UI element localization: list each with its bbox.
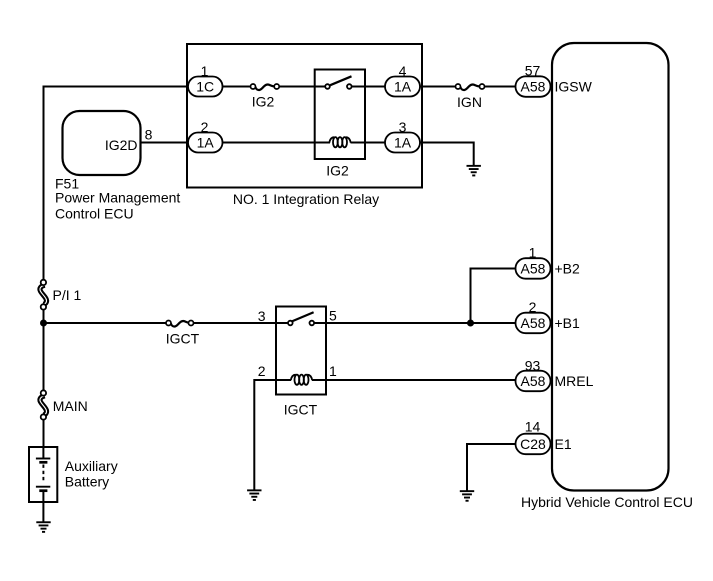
svg-text:Control ECU: Control ECU bbox=[55, 205, 134, 221]
wire: vertical from P/I 1 to MAIN bbox=[43, 310, 45, 391]
svg-text:2: 2 bbox=[529, 299, 537, 315]
svg-text:A58: A58 bbox=[521, 79, 546, 95]
connector pin 1A (pin 4) bbox=[385, 77, 420, 97]
fuse IG2 bbox=[251, 84, 280, 90]
svg-text:IG2D: IG2D bbox=[105, 137, 138, 153]
wire: fuse IG2 to relay contact bbox=[279, 86, 325, 88]
wire: 1C to fuse IG2 bbox=[223, 86, 251, 88]
svg-text:E1: E1 bbox=[555, 436, 572, 452]
wire: row2 from 1A (2) to coil bbox=[223, 142, 331, 144]
relay IGCT coil bbox=[291, 375, 312, 385]
svg-text:P/I 1: P/I 1 bbox=[53, 287, 82, 303]
svg-text:IG2: IG2 bbox=[326, 163, 349, 179]
svg-text:IGCT: IGCT bbox=[166, 330, 200, 346]
svg-text:Power Management: Power Management bbox=[55, 190, 180, 206]
svg-text:A58: A58 bbox=[521, 315, 546, 331]
connector pin 1C (pin 1) bbox=[188, 77, 223, 97]
wire: pin 1A (3) to ground bbox=[420, 143, 474, 167]
wire: +B2 branch up and right bbox=[471, 269, 517, 324]
wire: E1 to ground bbox=[467, 444, 516, 491]
connector pin 1A (pin 3) bbox=[385, 133, 420, 153]
ground: IGCT relay ground bbox=[247, 489, 261, 501]
svg-text:+B2: +B2 bbox=[555, 261, 581, 277]
relay IG2 coil bbox=[329, 137, 350, 147]
svg-text:IG2: IG2 bbox=[252, 94, 275, 110]
wire: pin 2 to coil bbox=[254, 379, 291, 381]
ground: E1 ground bbox=[460, 490, 474, 501]
connector pin A58 (1) +B2 bbox=[516, 258, 551, 279]
svg-text:93: 93 bbox=[525, 357, 541, 373]
svg-text:57: 57 bbox=[525, 63, 541, 79]
svg-text:1: 1 bbox=[329, 363, 337, 379]
box: Hybrid Vehicle Control ECU bbox=[552, 43, 669, 491]
svg-text:2: 2 bbox=[258, 363, 266, 379]
wire: junction to IGCT fuse bbox=[44, 322, 167, 324]
svg-text:IGCT: IGCT bbox=[284, 402, 318, 418]
svg-text:Hybrid Vehicle Control ECU: Hybrid Vehicle Control ECU bbox=[521, 494, 693, 510]
svg-text:3: 3 bbox=[258, 308, 266, 324]
box: NO. 1 Integration Relay outer box bbox=[187, 44, 422, 188]
battery: Auxiliary Battery bbox=[29, 447, 57, 502]
relay IG2 contact (switch) bbox=[325, 76, 351, 88]
wire: top-left horizontal feed to relay pin 1C bbox=[44, 86, 189, 88]
wire: pin 1A (4) to fuse IGN bbox=[420, 86, 456, 88]
wire: IGCT fuse to relay contact pin 3 bbox=[194, 322, 289, 324]
junction node: battery feed / IGCT branch bbox=[40, 320, 47, 327]
svg-text:Auxiliary: Auxiliary bbox=[65, 458, 118, 474]
wire: pin 2 down to ground bbox=[254, 380, 255, 490]
connector pin A58 (2) +B1 bbox=[516, 313, 551, 334]
wire: IG2D to pin 1A (2) bbox=[141, 142, 189, 144]
svg-text:1A: 1A bbox=[394, 79, 412, 95]
svg-text:1: 1 bbox=[201, 63, 209, 79]
fuse IGCT bbox=[166, 321, 194, 327]
svg-text:NO. 1 Integration Relay: NO. 1 Integration Relay bbox=[233, 191, 379, 207]
ground: battery ground bbox=[36, 521, 50, 533]
fusible link MAIN bbox=[40, 390, 47, 419]
relay IGCT contact (switch) bbox=[288, 312, 314, 325]
svg-text:1A: 1A bbox=[394, 135, 412, 151]
svg-text:5: 5 bbox=[329, 308, 337, 324]
svg-text:14: 14 bbox=[525, 419, 541, 435]
wire: contact pin 5 to +B1 with junction bbox=[314, 322, 516, 324]
relay IG2 inner box bbox=[315, 70, 365, 160]
connector pin C28 (14) E1 bbox=[516, 434, 551, 455]
box: F51 Power Management Control ECU bbox=[63, 111, 141, 175]
svg-text:4: 4 bbox=[399, 63, 407, 79]
wire: coil to pin 1A (3) bbox=[351, 142, 386, 144]
connector pin A58 (93) MREL bbox=[516, 371, 551, 392]
svg-text:1: 1 bbox=[529, 245, 537, 261]
junction node: +B2/+B1 branch bbox=[467, 320, 474, 327]
connector pin A58 (57) IGSW bbox=[516, 76, 551, 97]
wire: left vertical main feed down to P/I 1 bbox=[43, 86, 45, 280]
svg-text:+B1: +B1 bbox=[555, 315, 581, 331]
svg-text:MREL: MREL bbox=[555, 373, 594, 389]
connector pin 1A (pin 2) bbox=[188, 133, 223, 153]
svg-text:C28: C28 bbox=[520, 436, 546, 452]
svg-text:8: 8 bbox=[145, 127, 153, 143]
svg-text:MAIN: MAIN bbox=[53, 398, 88, 414]
wire: relay contact to pin 1A (4) bbox=[352, 86, 385, 88]
svg-text:Battery: Battery bbox=[65, 473, 109, 489]
svg-text:1A: 1A bbox=[197, 135, 215, 151]
svg-text:3: 3 bbox=[399, 119, 407, 135]
fusible link P/I 1 bbox=[40, 280, 47, 310]
ground: integration relay ground bbox=[467, 165, 481, 177]
svg-text:A58: A58 bbox=[521, 373, 546, 389]
wire: MAIN to battery bbox=[43, 420, 45, 447]
svg-text:2: 2 bbox=[201, 119, 209, 135]
svg-text:1C: 1C bbox=[196, 79, 214, 95]
fuse IGN bbox=[456, 84, 485, 90]
wire: battery to ground bbox=[42, 491, 44, 522]
wire: coil pin 1 to MREL bbox=[312, 379, 516, 381]
svg-text:IGN: IGN bbox=[457, 94, 482, 110]
wire: fuse IGN to pin A58 (57) bbox=[485, 86, 517, 88]
svg-text:IGSW: IGSW bbox=[555, 79, 593, 95]
svg-text:A58: A58 bbox=[521, 261, 546, 277]
relay IGCT box bbox=[276, 307, 326, 395]
